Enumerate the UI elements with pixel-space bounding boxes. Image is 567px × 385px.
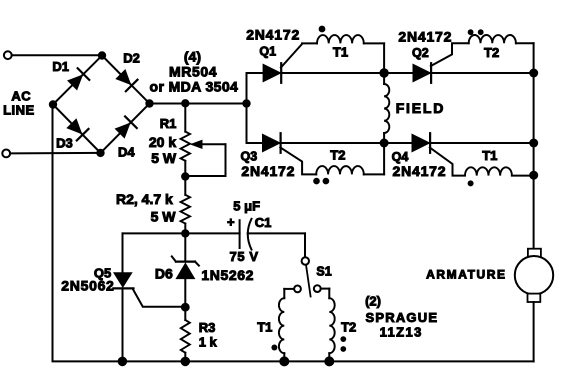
svg-text:2N4172: 2N4172	[393, 163, 447, 179]
svg-text:(4): (4)	[184, 48, 201, 64]
svg-text:+: +	[227, 215, 235, 230]
svg-text:5 W: 5 W	[151, 150, 177, 166]
svg-text:T1: T1	[333, 45, 348, 60]
svg-text:LINE: LINE	[3, 103, 35, 118]
svg-text:T2: T2	[330, 148, 345, 163]
svg-text:75 V: 75 V	[230, 249, 259, 264]
svg-text:AC: AC	[11, 89, 31, 104]
svg-text:2N5062: 2N5062	[61, 277, 114, 293]
svg-text:Q1: Q1	[259, 44, 276, 58]
svg-text:Q2: Q2	[412, 46, 429, 60]
svg-text:FIELD: FIELD	[396, 100, 445, 116]
svg-text:S1: S1	[316, 265, 331, 279]
svg-text:T2: T2	[484, 45, 499, 60]
svg-text:ARMATURE: ARMATURE	[426, 268, 507, 282]
svg-text:R2, 4.7 k: R2, 4.7 k	[116, 191, 173, 207]
svg-text:1 k: 1 k	[199, 335, 218, 350]
svg-text:1N5262: 1N5262	[201, 267, 254, 283]
svg-text:Q4: Q4	[392, 150, 409, 164]
svg-text:MR504: MR504	[169, 63, 217, 79]
svg-text:or MDA 3504: or MDA 3504	[150, 78, 239, 94]
svg-text:5 μF: 5 μF	[233, 199, 260, 214]
svg-text:R1: R1	[160, 116, 177, 131]
svg-text:5 W: 5 W	[151, 209, 177, 225]
svg-text:R3: R3	[199, 320, 216, 335]
svg-text:T2: T2	[341, 319, 356, 334]
svg-text:D4: D4	[118, 145, 135, 160]
svg-text:D1: D1	[52, 59, 69, 74]
svg-text:D6: D6	[155, 266, 173, 282]
svg-text:(2): (2)	[365, 294, 381, 309]
svg-text:T1: T1	[257, 320, 272, 335]
svg-text:20 k: 20 k	[149, 134, 176, 150]
svg-text:T1: T1	[482, 148, 497, 163]
svg-text:SPRAGUE: SPRAGUE	[366, 310, 439, 325]
svg-text:D3: D3	[56, 135, 73, 150]
svg-text:2N4172: 2N4172	[241, 163, 295, 179]
svg-text:Q3: Q3	[241, 149, 258, 163]
svg-text:11Z13: 11Z13	[380, 324, 423, 339]
svg-text:2N4172: 2N4172	[398, 28, 452, 44]
svg-text:D2: D2	[123, 51, 140, 66]
svg-text:2N4172: 2N4172	[246, 27, 300, 43]
svg-text:C1: C1	[255, 215, 272, 230]
